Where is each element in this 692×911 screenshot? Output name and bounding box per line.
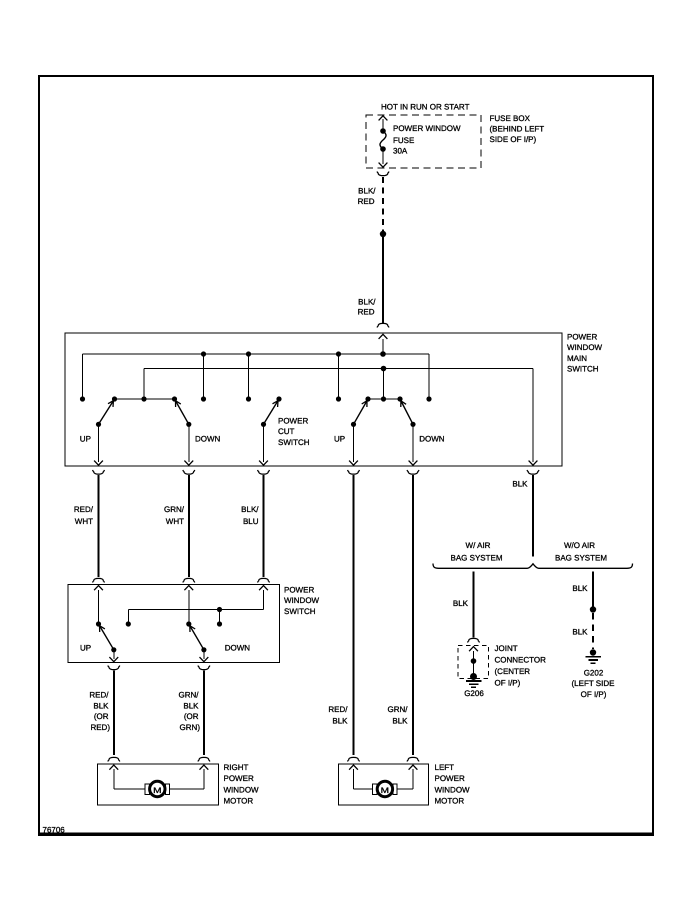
bus drop right end to contact [428,354,430,399]
wire RED/BLK to left motor [353,475,355,755]
svg-text:CUT: CUT [278,427,295,436]
connector RED/BLK into right motor [108,757,120,761]
wire inside joint connector [473,651,475,677]
wire GRN/WHT [188,475,190,577]
svg-text:RED: RED [358,308,375,317]
connector RED/WHT below main switch [93,470,105,474]
connector BLK below main switch [527,470,539,474]
wire BLK to G206 branch [473,572,475,638]
wire RED/WHT [98,475,100,577]
splice junction on BLK/RED wire [380,231,386,237]
svg-text:DOWN: DOWN [195,435,221,444]
switch arm UP right door [99,624,114,650]
svg-text:SWITCH: SWITCH [567,365,599,374]
wire DOWN output [203,650,205,659]
svg-text:JOINT: JOINT [495,644,518,653]
connector RED/WHT into switch [93,578,105,582]
svg-text:BLK: BLK [93,702,109,711]
connector GRN/BLK into right motor [198,757,210,761]
right-window rocker bar [115,398,175,400]
wire left-window DOWN to output [412,424,414,462]
svg-text:BAG SYSTEM: BAG SYSTEM [555,554,607,563]
connector RED/BLK into left motor [348,757,360,761]
svg-text:POWER: POWER [435,774,465,783]
svg-text:WHT: WHT [75,517,93,526]
wire BLK/BLU branch [263,590,265,610]
connector above joint connector [468,638,480,642]
svg-text:FUSE BOX: FUSE BOX [490,114,531,123]
svg-text:W/ AIR: W/ AIR [466,541,491,550]
arrow into main switch [379,334,388,339]
svg-text:30A: 30A [393,147,408,156]
svg-text:POWER: POWER [567,333,597,342]
svg-text:MOTOR: MOTOR [435,797,465,806]
svg-text:GRN/: GRN/ [388,705,409,714]
svg-text:SIDE OF I/P): SIDE OF I/P) [490,135,537,144]
svg-text:MAIN: MAIN [567,354,587,363]
svg-text:GRN/: GRN/ [164,505,185,514]
svg-text:WINDOW: WINDOW [567,343,603,352]
wire arm UP to output [98,424,100,462]
svg-text:W/O AIR: W/O AIR [564,541,595,550]
svg-text:DOWN: DOWN [225,643,251,652]
bus wire common horizontal [144,368,533,370]
node bus common feed [381,366,387,372]
arrow into joint connector [469,647,478,652]
svg-text:(LEFT SIDE: (LEFT SIDE [572,679,615,688]
svg-text:UP: UP [80,435,91,444]
svg-text:(BEHIND LEFT: (BEHIND LEFT [490,124,545,133]
svg-text:GRN/: GRN/ [179,691,200,700]
svg-text:CONNECTOR: CONNECTOR [495,656,547,665]
svg-text:BLK: BLK [512,479,528,488]
wire UP output [113,650,115,659]
wire arm DOWN to output [188,424,190,462]
bus common left end drop [143,369,145,400]
bus common right end drop to BLK output [532,369,534,463]
svg-text:BLK: BLK [572,584,588,593]
brace for system split [433,564,633,569]
connector below fuse box [377,172,389,176]
switch arm UP left-window [354,399,369,424]
wire GRN/BLK to left motor [412,475,414,755]
wire BLK/RED dashed from fuse box [382,177,384,231]
power cut switch arm [264,399,280,424]
svg-text:(CENTER: (CENTER [495,667,531,676]
connector GRN/BLK into left motor [407,757,419,761]
svg-text:RIGHT: RIGHT [224,763,249,772]
svg-text:RED): RED) [90,723,110,732]
connector below switch RED/BLK [108,666,120,670]
splice on G202 branch [590,606,596,612]
connector GRN/WHT below main switch [183,470,195,474]
left-window rocker bar [368,398,400,400]
wire GRN/BLK (OR GRN) to right motor [203,671,205,756]
svg-text:UP: UP [80,643,91,652]
svg-text:BLK/: BLK/ [241,505,259,514]
wire BLK/BLU [263,475,265,577]
svg-text:BLK: BLK [453,599,469,608]
wire to UP contact [98,590,100,624]
arrow BLK/BLU into switch [259,586,268,591]
wire BLK to G202 branch [592,572,594,610]
svg-text:BLK/: BLK/ [358,297,376,306]
svg-text:SWITCH: SWITCH [284,607,316,616]
wire RED/BLK (OR RED) to right motor [113,671,115,756]
bus drop at 248 [246,351,251,356]
svg-text:G202: G202 [584,668,604,677]
svg-text:LEFT: LEFT [435,763,455,772]
svg-text:OF I/P): OF I/P) [581,690,607,699]
bus drop at 338 [336,351,341,356]
svg-text:G206: G206 [464,689,484,698]
wire BLK dashed to G202 [592,613,594,649]
bus drop at 203 [201,351,206,356]
node bus B+ feed [380,351,386,357]
svg-text:RED/: RED/ [89,691,109,700]
svg-text:BLU: BLU [243,517,259,526]
svg-text:RED/: RED/ [74,505,94,514]
connector BLK/BLU below main switch [258,470,270,474]
svg-text:POWER: POWER [224,774,254,783]
connector above main switch box [377,323,389,327]
svg-text:BLK/: BLK/ [358,187,376,196]
svg-text:M: M [381,786,390,795]
svg-text:BLK: BLK [183,702,199,711]
bus wire B+ horizontal [83,353,430,355]
svg-text:BLK: BLK [392,716,408,725]
svg-text:(OR: (OR [184,712,199,721]
wire BLK/RED solid to main switch [382,234,384,324]
svg-text:SWITCH: SWITCH [278,438,310,447]
ground node G206 [470,673,477,680]
svg-text:BAG SYSTEM: BAG SYSTEM [450,554,502,563]
switch arm DOWN left-window [400,399,413,424]
svg-text:GRN): GRN) [180,723,201,732]
arrow RED/WHT into switch [94,586,103,591]
bus drop left end to contact [82,354,84,399]
left power window motor M2 [339,764,429,805]
svg-text:UP: UP [334,435,345,444]
svg-text:BLK: BLK [332,716,348,725]
connector RED/BLK below main switch [348,470,360,474]
junction on branch [217,607,222,612]
svg-text:OF I/P): OF I/P) [495,678,521,687]
svg-text:RED: RED [358,197,375,206]
contact dot left [126,621,131,626]
switch arm UP right-window [99,399,115,424]
svg-text:WHT: WHT [166,517,184,526]
svg-text:FUSE: FUSE [393,136,414,145]
svg-text:HOT IN RUN OR START: HOT IN RUN OR START [381,103,470,112]
wire to DOWN contact [188,590,190,624]
svg-text:76706: 76706 [43,826,66,835]
wire common to right rocker [383,369,385,400]
junction in joint connector [471,658,477,664]
wire power cut switch to output [263,424,265,462]
svg-text:DOWN: DOWN [419,435,445,444]
connector BLK/BLU into switch [258,578,270,582]
right power window motor M1 [98,764,219,805]
svg-text:POWER: POWER [278,417,308,426]
connector GRN/WHT into switch [183,578,195,582]
arrow GRN/WHT into switch [184,586,193,591]
svg-text:BLK: BLK [572,628,588,637]
wire BLK ground lead [532,475,534,557]
fuse box dashed outline [366,115,481,168]
svg-text:RED/: RED/ [328,705,348,714]
ground node G202 [590,649,596,655]
page border frame [39,76,653,834]
wire feed to bus [382,339,384,354]
svg-text:WINDOW: WINDOW [224,785,260,794]
svg-text:POWER: POWER [284,586,314,595]
fuse F1 POWER WINDOW FUSE 30A [379,116,388,167]
contact dot right [217,621,222,626]
svg-text:WINDOW: WINDOW [435,785,471,794]
svg-text:WINDOW: WINDOW [284,596,320,605]
svg-text:(OR: (OR [94,712,109,721]
power window main switch box [65,333,562,466]
wire left-window UP to output [353,424,355,462]
connector below switch GRN/BLK [198,666,210,670]
switch arm DOWN right door [189,624,204,650]
switch arm DOWN right-window [175,399,189,424]
joint connector dashed box [458,646,489,679]
svg-text:POWER WINDOW: POWER WINDOW [393,124,461,133]
svg-text:M: M [153,786,162,795]
connector GRN/BLK below main switch [407,470,419,474]
power window switch box [68,585,280,663]
svg-text:MOTOR: MOTOR [224,797,254,806]
